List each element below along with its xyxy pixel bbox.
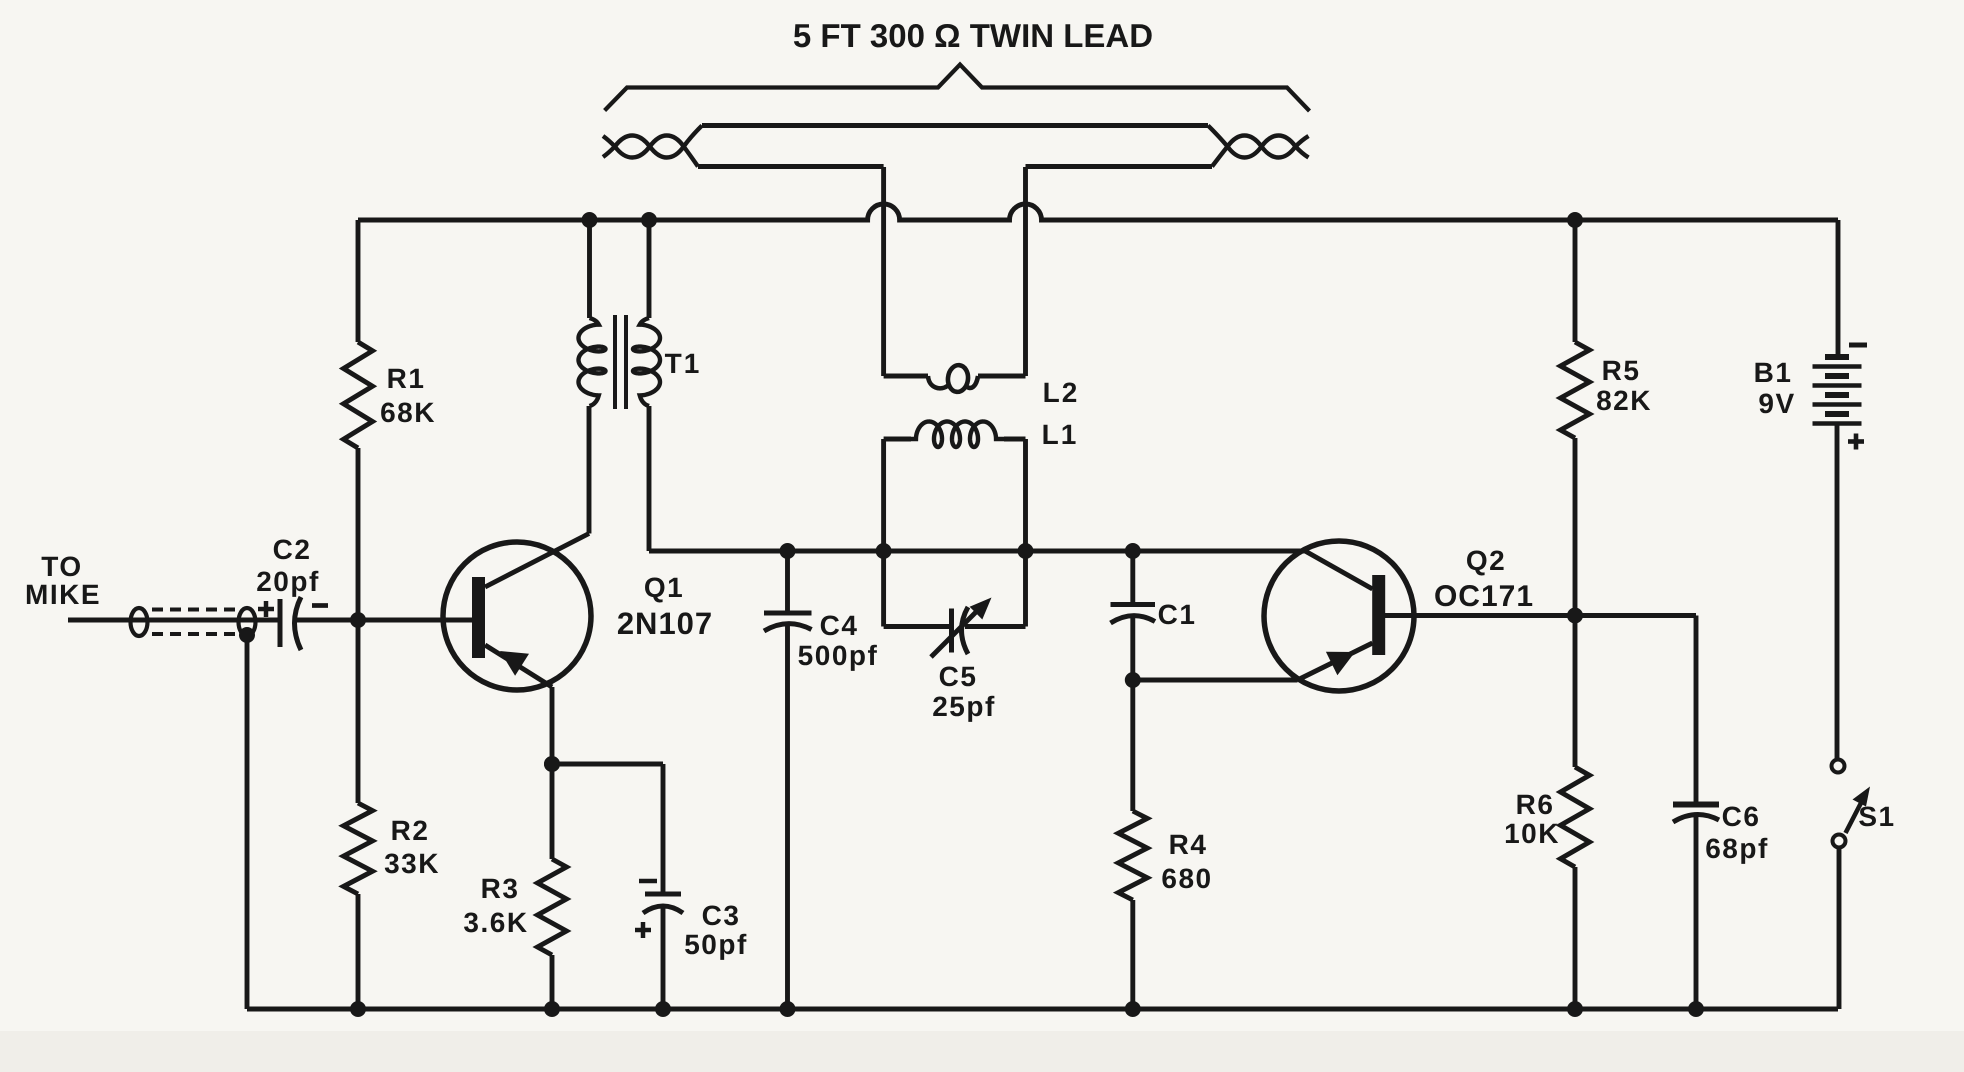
svg-text:L2: L2 [1043,377,1080,408]
svg-text:R1: R1 [387,363,426,394]
svg-text:T1: T1 [665,348,702,379]
svg-text:C6: C6 [1722,801,1761,832]
svg-text:C3: C3 [702,900,741,931]
svg-text:25pf: 25pf [932,691,996,722]
svg-text:C2: C2 [273,534,312,565]
svg-text:L1: L1 [1042,419,1079,450]
svg-text:33K: 33K [384,848,440,879]
svg-text:B1: B1 [1754,357,1793,388]
svg-text:10K: 10K [1504,818,1560,849]
svg-text:5 FT 300 Ω TWIN LEAD: 5 FT 300 Ω TWIN LEAD [793,17,1153,54]
svg-text:50pf: 50pf [684,929,748,960]
svg-text:Q2: Q2 [1466,545,1506,576]
svg-text:2N107: 2N107 [617,606,713,641]
svg-text:3.6K: 3.6K [463,907,528,938]
svg-text:MIKE: MIKE [25,579,101,610]
svg-text:Q1: Q1 [644,572,684,603]
svg-text:9V: 9V [1758,388,1795,419]
svg-text:S1: S1 [1858,801,1895,832]
svg-text:R2: R2 [391,815,430,846]
svg-text:82K: 82K [1596,385,1652,416]
svg-text:68K: 68K [380,397,436,428]
svg-text:680: 680 [1161,863,1212,894]
svg-text:20pf: 20pf [256,566,320,597]
svg-text:OC171: OC171 [1434,580,1534,613]
svg-text:R4: R4 [1169,829,1208,860]
svg-text:68pf: 68pf [1705,833,1769,864]
svg-text:TO: TO [41,551,82,582]
svg-text:500pf: 500pf [798,640,879,671]
svg-text:C4: C4 [820,610,859,641]
svg-text:R6: R6 [1516,789,1555,820]
svg-text:R3: R3 [481,873,520,904]
svg-text:C5: C5 [939,661,978,692]
svg-text:R5: R5 [1602,355,1641,386]
svg-text:C1: C1 [1158,599,1197,630]
